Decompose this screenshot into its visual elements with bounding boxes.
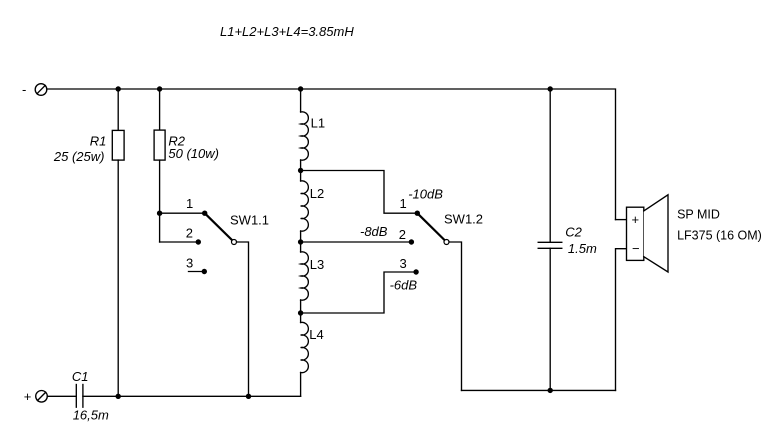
svg-text:L2: L2 bbox=[310, 186, 324, 201]
svg-text:3: 3 bbox=[186, 256, 193, 271]
svg-text:25 (25w): 25 (25w) bbox=[53, 149, 105, 164]
resistor R1 bbox=[112, 130, 124, 160]
svg-text:SP MID: SP MID bbox=[677, 207, 720, 221]
wire bottom left rail bbox=[83, 395, 301, 397]
wire SW1.1 pole to bottom rail bbox=[237, 242, 249, 396]
svg-text:L1: L1 bbox=[311, 116, 325, 131]
resistor R2 bbox=[154, 130, 165, 160]
node L1 top bbox=[298, 86, 303, 91]
wire speaker minus lead bbox=[616, 249, 627, 391]
svg-text:2: 2 bbox=[186, 226, 193, 241]
node C2 top bbox=[548, 86, 553, 91]
svg-text:C1: C1 bbox=[72, 369, 89, 384]
terminal T1 negative input bbox=[35, 84, 47, 96]
wire SW1.2 pole to bottom rail bbox=[449, 242, 462, 390]
capacitor C1 bbox=[75, 385, 77, 408]
wire bottom right rail bbox=[462, 389, 616, 391]
inductor L4 bbox=[301, 322, 309, 372]
inductor L1 bbox=[301, 112, 309, 160]
node R2 top bbox=[157, 86, 162, 91]
inductor L3 bbox=[301, 252, 309, 300]
wire terminal to C1 bbox=[47, 395, 76, 397]
wire C2 bottom lead bbox=[549, 248, 551, 390]
inductor L2 bbox=[301, 181, 309, 231]
wire L4 bottom lead bbox=[300, 373, 302, 397]
wire L1 to L2 link bbox=[300, 160, 302, 181]
node SW1.1 bottom bbox=[246, 394, 251, 399]
svg-text:L1+L2+L3+L4=3.85mH: L1+L2+L3+L4=3.85mH bbox=[220, 24, 354, 39]
SW1.2 pole contact bbox=[444, 240, 449, 245]
node tap1 bbox=[298, 168, 303, 173]
wire R2 bottom lead bbox=[159, 160, 161, 242]
svg-text:-10dB: -10dB bbox=[408, 187, 443, 202]
SW1.1 pin2 contact bbox=[196, 239, 201, 244]
switch SW1.2 arm bbox=[417, 213, 446, 242]
wire SW1.1 pin3 stub bbox=[189, 271, 205, 273]
wire tap2 to SW1.2 pin2 bbox=[301, 241, 412, 243]
wire R1 top lead bbox=[117, 89, 119, 130]
wire tap1 to SW1.2 pin1 bbox=[301, 171, 418, 214]
svg-text:+: + bbox=[24, 389, 32, 404]
svg-text:-: - bbox=[22, 82, 26, 97]
terminal T2 positive input bbox=[36, 391, 48, 403]
svg-text:-6dB: -6dB bbox=[390, 278, 418, 293]
svg-text:2: 2 bbox=[399, 227, 406, 242]
speaker horn bbox=[644, 195, 668, 272]
wire junction to SW1.1 pin1 bbox=[160, 212, 205, 214]
svg-text:1: 1 bbox=[186, 196, 193, 211]
wire C2 top lead bbox=[549, 89, 551, 242]
svg-text:C2: C2 bbox=[565, 224, 582, 239]
node tap3 bbox=[298, 310, 303, 315]
wire inductor chain top lead bbox=[300, 89, 302, 112]
node C2 bottom bbox=[548, 388, 553, 393]
switch SW1.1 arm bbox=[205, 213, 234, 242]
SW1.1 pin3 contact bbox=[202, 269, 207, 274]
svg-text:L3: L3 bbox=[310, 257, 324, 272]
capacitor C2 bbox=[538, 241, 562, 243]
svg-text:1.5m: 1.5m bbox=[568, 241, 597, 256]
node R1 top bbox=[116, 86, 121, 91]
svg-text:L4: L4 bbox=[309, 327, 323, 342]
node R2 to SW1.1 junction bbox=[157, 211, 162, 216]
wire L2 to L3 link bbox=[300, 231, 302, 252]
svg-text:1: 1 bbox=[400, 196, 407, 211]
node tap2 bbox=[298, 239, 303, 244]
svg-text:SW1.1: SW1.1 bbox=[230, 213, 269, 228]
node R1 bottom bbox=[116, 394, 121, 399]
speaker U1 body bbox=[627, 207, 644, 260]
svg-text:R1: R1 bbox=[90, 133, 107, 148]
SW1.2 pin1 contact bbox=[415, 211, 420, 216]
svg-text:+: + bbox=[632, 212, 640, 227]
SW1.2 pin3 contact bbox=[413, 269, 418, 274]
wire top rail bbox=[47, 89, 616, 220]
SW1.1 pole contact bbox=[232, 240, 237, 245]
wire L3 to L4 link bbox=[300, 300, 302, 323]
wire R2 top lead bbox=[159, 89, 161, 130]
SW1.2 pin2 contact bbox=[409, 239, 414, 244]
svg-text:-8dB: -8dB bbox=[360, 224, 388, 239]
wire tap3 to SW1.2 pin3 bbox=[301, 272, 417, 313]
svg-text:3: 3 bbox=[400, 256, 407, 271]
svg-text:16,5m: 16,5m bbox=[73, 407, 109, 422]
svg-text:50 (10w): 50 (10w) bbox=[168, 146, 219, 161]
svg-text:−: − bbox=[632, 241, 640, 256]
SW1.1 pin1 contact bbox=[202, 211, 207, 216]
wire R2 to SW1.1 pin2 bbox=[160, 241, 199, 243]
svg-text:LF375 (16 OM): LF375 (16 OM) bbox=[677, 228, 762, 242]
wire speaker plus lead bbox=[616, 219, 627, 221]
wire R1 bottom lead bbox=[117, 160, 119, 396]
svg-text:SW1.2: SW1.2 bbox=[444, 212, 483, 227]
